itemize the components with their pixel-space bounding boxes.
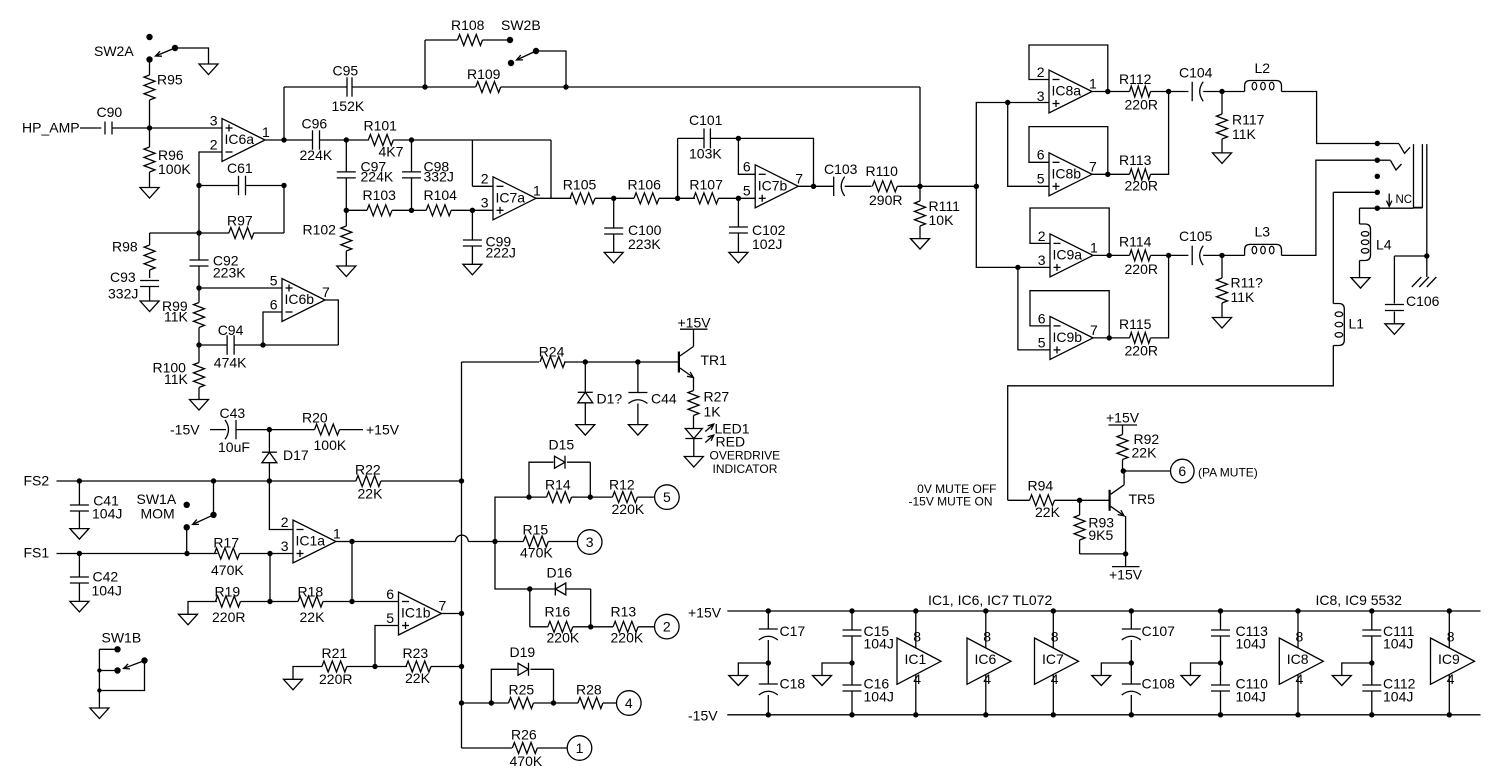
capacitor C113 C110 pair: [1211, 608, 1268, 717]
wire R94 to TR5 base: [1055, 498, 1110, 503]
node FS2 label: [24, 473, 50, 489]
svg-text:3: 3: [210, 112, 218, 128]
svg-text:+15V: +15V: [366, 422, 400, 438]
wire SW1B top contact to rail: [99, 648, 117, 650]
wire C44 to ground: [637, 404, 639, 425]
svg-text:4: 4: [1296, 671, 1304, 687]
svg-text:152K: 152K: [332, 98, 365, 114]
jack contact to L1: [1333, 190, 1380, 195]
wire IC9b feedback loop: [1030, 291, 1109, 338]
wire D1? to ground: [584, 403, 586, 425]
resistor R93: [1074, 500, 1114, 554]
inductor L3: [1245, 224, 1282, 256]
svg-text:C103: C103: [824, 161, 858, 177]
ground hook C113 C110: [1181, 663, 1221, 686]
svg-text:R101: R101: [364, 118, 398, 134]
wire R20 to +15V: [340, 429, 364, 431]
wire R22 to bus: [381, 480, 462, 482]
switch SW1B: [102, 630, 148, 674]
capacitor C95: [332, 63, 365, 115]
wire IC6b output down: [325, 300, 338, 345]
resistor R104: [409, 187, 473, 216]
wire FS2 to R22: [269, 480, 356, 482]
svg-text:1: 1: [533, 183, 541, 199]
jack body frame: [1414, 144, 1423, 208]
svg-text:6: 6: [743, 159, 751, 175]
resistor R112: [1119, 71, 1158, 113]
svg-text:22K: 22K: [1035, 504, 1061, 520]
svg-text:R13: R13: [611, 604, 637, 620]
wire SW1B rail: [97, 649, 101, 708]
ground below R96: [140, 188, 159, 199]
node C94 junction: [196, 342, 201, 347]
terminal circle 5: [655, 485, 680, 510]
wire C101 feedback left leg: [678, 138, 704, 198]
wire R114 to C105 node: [1151, 253, 1189, 258]
svg-text:4: 4: [913, 671, 921, 687]
svg-text:IC6a: IC6a: [225, 131, 255, 147]
svg-text:IC1, IC6, IC7 TL072: IC1, IC6, IC7 TL072: [928, 592, 1052, 608]
svg-text:103K: 103K: [689, 146, 722, 162]
svg-text:290R: 290R: [869, 192, 902, 208]
jack NC contact wire: [1360, 206, 1414, 211]
capacitor C105: [1179, 228, 1213, 265]
ground below C99: [463, 264, 482, 275]
switch SW2A: [94, 34, 178, 63]
svg-text:7: 7: [1089, 159, 1097, 175]
capacitor C107 C108 pair: [1122, 608, 1175, 717]
svg-text:3: 3: [481, 195, 489, 211]
svg-text:6: 6: [386, 586, 394, 602]
svg-text:D16: D16: [547, 565, 573, 581]
resistor R99: [162, 288, 205, 345]
wire R110 to IC8 input node: [897, 184, 979, 189]
svg-text:10K: 10K: [929, 212, 955, 228]
svg-text:R24: R24: [539, 344, 565, 360]
wire SW1B middle contact: [99, 670, 117, 672]
wire R109 to corner: [501, 84, 920, 89]
svg-text:4: 4: [1051, 671, 1059, 687]
wire to D19 junction: [462, 700, 494, 705]
svg-text:R112: R112: [1119, 71, 1152, 87]
wire IC6b pin6 feed: [263, 312, 282, 345]
svg-text:C17: C17: [780, 623, 806, 639]
capacitor C17 C18 pair: [759, 608, 806, 717]
wire C104 to L2: [1203, 89, 1244, 94]
wire C103 to R110: [845, 185, 872, 187]
ground below R102: [337, 266, 356, 277]
svg-text:6: 6: [270, 296, 278, 312]
svg-text:5: 5: [1038, 334, 1046, 350]
ground hook C111 C112: [1332, 663, 1372, 686]
power +15V at R92: [1106, 410, 1140, 426]
wire SW1A pivot to FS2: [213, 481, 215, 515]
svg-text:1: 1: [333, 526, 341, 542]
svg-text:223K: 223K: [628, 236, 661, 252]
svg-text:C90: C90: [97, 104, 123, 120]
svg-text:L2: L2: [1255, 60, 1271, 76]
capacitor C103: [824, 161, 858, 196]
wire IC7a pin2 feed: [472, 140, 493, 186]
wire R21 to R23: [347, 664, 407, 669]
power +15V after R20: [366, 422, 400, 438]
svg-text:SW1B: SW1B: [102, 630, 142, 646]
svg-text:7: 7: [322, 284, 330, 300]
wire IC1b output to bus: [442, 613, 463, 615]
svg-text:R15: R15: [523, 522, 549, 538]
label PA MUTE: [1198, 466, 1258, 480]
label mute states: [908, 482, 996, 509]
power +15V rail label: [688, 605, 722, 621]
resistor R26: [510, 727, 543, 770]
svg-text:104J: 104J: [1236, 689, 1266, 705]
svg-text:11K: 11K: [1232, 126, 1257, 142]
svg-text:4K7: 4K7: [379, 144, 404, 160]
capacitor C61: [196, 160, 286, 195]
ground below C41: [70, 529, 89, 540]
svg-text:D19: D19: [510, 644, 536, 660]
svg-text:R105: R105: [563, 176, 597, 192]
wire L4 lead: [1359, 208, 1361, 224]
capacitor C41: [70, 481, 122, 529]
wire feedback to IC7b output: [738, 138, 813, 186]
svg-text:6: 6: [1037, 147, 1045, 163]
svg-text:R21: R21: [322, 645, 348, 661]
wire SW1B pivot down: [99, 661, 144, 691]
svg-text:IC6: IC6: [975, 651, 997, 667]
LED LED1 RED: [685, 421, 749, 450]
svg-text:SW2A: SW2A: [94, 43, 134, 59]
svg-text:220K: 220K: [611, 630, 644, 646]
svg-text:R103: R103: [363, 187, 397, 203]
svg-text:5: 5: [663, 489, 671, 505]
wire R101 to C98 node: [393, 137, 472, 142]
svg-text:8: 8: [1447, 629, 1455, 645]
wire IC6b pin5 feed: [196, 285, 282, 290]
resistor R11?: [1217, 255, 1264, 317]
capacitor C93: [108, 269, 159, 302]
svg-text:R104: R104: [424, 187, 458, 203]
svg-text:220K: 220K: [547, 630, 580, 646]
svg-text:2: 2: [210, 136, 218, 152]
wire IC1a output down to R18: [351, 542, 353, 602]
wire FS2 to IC1a pin2: [269, 481, 293, 530]
svg-text:C101: C101: [689, 112, 723, 128]
wire D17 to FS2 line: [268, 463, 270, 481]
wire C95 to R109: [352, 84, 476, 89]
svg-text:R17: R17: [213, 535, 239, 551]
wire to D15 junction: [495, 494, 532, 541]
power -15V label: [170, 422, 226, 438]
inductor L2: [1245, 60, 1282, 92]
wire R14 to R12: [577, 494, 613, 499]
chassis ground: [1412, 256, 1437, 287]
svg-text:INDICATOR: INDICATOR: [713, 462, 778, 476]
wire L3 to jack ring contact: [1282, 158, 1381, 256]
wire junction to IC7b pin6: [738, 138, 755, 174]
resistor R113: [1119, 152, 1158, 194]
ground below C93: [140, 301, 159, 312]
svg-text:TR5: TR5: [1129, 491, 1156, 507]
svg-text:104J: 104J: [1236, 636, 1266, 652]
op-amp IC8a: [1037, 64, 1097, 113]
resistor R115: [1119, 316, 1158, 359]
svg-text:FS2: FS2: [24, 473, 50, 489]
transistor TR1: [679, 347, 727, 378]
svg-text:220K: 220K: [612, 501, 645, 517]
svg-text:IC7b: IC7b: [758, 177, 788, 193]
terminal circle 2: [655, 614, 680, 639]
svg-text:4: 4: [983, 671, 991, 687]
ground at R21: [284, 679, 303, 690]
power -15V rail label: [688, 708, 718, 724]
svg-text:9K5: 9K5: [1088, 527, 1113, 543]
wire to IC8b pin5: [1008, 103, 1049, 187]
op-amp IC7 power: [1035, 608, 1079, 717]
wire FS1 down to R19 node: [269, 554, 271, 602]
svg-text:104J: 104J: [864, 689, 894, 705]
wire C96 to R101 node: [320, 137, 370, 142]
svg-text:IC9a: IC9a: [1053, 246, 1083, 262]
switch SW1A: [137, 491, 217, 531]
ground at R19: [179, 614, 198, 625]
svg-text:R115: R115: [1119, 316, 1152, 332]
svg-text:IC7: IC7: [1042, 651, 1064, 667]
svg-text:IC9: IC9: [1438, 651, 1460, 667]
svg-text:IC7a: IC7a: [496, 189, 526, 205]
capacitor C106: [1385, 256, 1440, 324]
wire inverting bus down: [198, 186, 200, 261]
svg-text:C61: C61: [227, 160, 253, 176]
svg-text:4: 4: [1447, 671, 1455, 687]
svg-text:IC1: IC1: [905, 651, 927, 667]
svg-text:IC6b: IC6b: [285, 291, 315, 307]
wire IC6a pin2 bend: [199, 152, 222, 186]
resistor R19: [212, 584, 245, 626]
resistor R106: [628, 176, 662, 204]
svg-text:L4: L4: [1376, 237, 1392, 253]
wire IC9a feedback loop: [1030, 208, 1109, 255]
wire R105 to R106: [595, 196, 634, 201]
jack contact V2: [1377, 160, 1401, 170]
wire R23 to bus: [431, 666, 462, 668]
ground hook C15 C16: [813, 663, 853, 686]
ground below C44: [628, 425, 647, 436]
op-amp IC6b: [270, 272, 330, 321]
diode D15 loop: [529, 437, 590, 498]
svg-text:11K: 11K: [1231, 289, 1256, 305]
op-amp IC8b: [1037, 147, 1097, 196]
svg-text:R98: R98: [112, 239, 138, 255]
resistor R22: [355, 462, 383, 502]
svg-text:22K: 22K: [300, 609, 326, 625]
resistor R105: [563, 176, 597, 204]
wire -15V rail: [727, 714, 1480, 716]
ground below C100: [604, 252, 623, 263]
svg-text:R19: R19: [215, 584, 241, 600]
svg-text:1: 1: [576, 740, 584, 756]
resistor R114: [1119, 234, 1158, 278]
svg-text:470K: 470K: [211, 562, 244, 578]
svg-text:100K: 100K: [314, 437, 347, 453]
svg-text:C44: C44: [651, 391, 677, 407]
wire R17 to IC1a pin3: [240, 551, 294, 556]
terminal circle 6: [1171, 459, 1195, 483]
svg-text:2: 2: [1038, 228, 1046, 244]
label OVERDRIVE INDICATOR: [710, 449, 781, 477]
wire bus R24 to R22: [459, 362, 464, 484]
jack unused contact: [1375, 174, 1380, 179]
capacitor C43: [218, 405, 250, 455]
resistor R27: [688, 389, 729, 420]
svg-text:(PA MUTE): (PA MUTE): [1198, 466, 1258, 480]
resistor R15: [495, 522, 577, 561]
wire R24 to TR1 base: [564, 359, 679, 364]
resistor R103: [344, 187, 412, 216]
svg-text:224K: 224K: [300, 147, 333, 163]
inductor L1: [1333, 304, 1364, 346]
switch SW2B: [501, 17, 541, 66]
wire to PA MUTE terminal: [1124, 470, 1170, 472]
op-amp IC1 power: [897, 608, 941, 717]
wire ground to R21: [293, 667, 322, 680]
svg-text:104J: 104J: [92, 506, 122, 522]
wire IC8a feedback loop: [1029, 45, 1108, 92]
svg-text:7: 7: [795, 171, 803, 187]
ground below SW1B: [90, 708, 109, 719]
wire SW2A to ground: [175, 48, 209, 64]
ground below C102: [729, 252, 748, 263]
svg-text:220R: 220R: [1125, 97, 1158, 113]
svg-text:11K: 11K: [164, 309, 189, 325]
resistor R28: [576, 682, 603, 709]
wire R112 to C104 node: [1151, 89, 1189, 94]
wire IC8b feedback loop: [1029, 127, 1108, 175]
svg-text:470K: 470K: [520, 545, 553, 561]
wire R26 to pin 1: [537, 747, 567, 749]
power +15V at TR1: [678, 315, 712, 331]
capacitor C100: [604, 198, 661, 252]
label 5532 group: [1316, 592, 1403, 608]
svg-text:1K: 1K: [704, 404, 722, 420]
resistor R21: [319, 645, 352, 687]
svg-text:5: 5: [743, 183, 751, 199]
svg-text:MOM: MOM: [141, 506, 175, 522]
capacitor C102: [729, 198, 786, 252]
wire SW2B to main line: [536, 51, 566, 87]
wire R108 branch up: [425, 40, 458, 87]
wire R113 up to C104 node: [1151, 92, 1169, 175]
resistor R110: [866, 163, 903, 208]
wire R16 to R13: [588, 624, 613, 629]
svg-text:2: 2: [1037, 64, 1045, 80]
svg-text:C108: C108: [1142, 676, 1176, 692]
resistor R102: [303, 210, 352, 266]
op-amp IC7b: [743, 159, 803, 208]
svg-text:332J: 332J: [424, 169, 454, 185]
wire R104 to IC7a pin3: [470, 208, 493, 213]
svg-text:220R: 220R: [1125, 343, 1158, 359]
svg-text:R28: R28: [576, 682, 602, 698]
wire IC8a output: [1092, 89, 1130, 94]
svg-text:+15V: +15V: [1106, 410, 1140, 426]
svg-text:C104: C104: [1179, 65, 1213, 81]
svg-text:FS1: FS1: [24, 545, 50, 561]
wire IC7a output: [536, 197, 571, 199]
wire R28 to pin 4: [603, 702, 617, 704]
svg-text:C96: C96: [302, 116, 328, 132]
wire R25 to R28: [551, 700, 578, 705]
wire bus R22 to IC1b out: [459, 481, 464, 616]
resistor R13: [611, 604, 644, 646]
ground below L4: [1351, 278, 1370, 289]
wire IC8b output: [1092, 172, 1130, 177]
op-amp IC1a: [281, 514, 341, 563]
svg-text:R108: R108: [451, 17, 485, 33]
wire R27 to LED1: [693, 416, 695, 429]
op-amp IC9b: [1038, 310, 1098, 359]
svg-text:224K: 224K: [361, 169, 394, 185]
op-amp IC8 power: [1279, 608, 1323, 717]
capacitor C92: [190, 253, 247, 289]
inductor L4: [1360, 224, 1392, 261]
svg-text:22K: 22K: [358, 486, 384, 502]
ground below LED1: [684, 457, 703, 468]
svg-text:22K: 22K: [405, 670, 431, 686]
resistor R12: [609, 477, 645, 518]
wire D16 right leg: [590, 589, 592, 627]
resistor R101: [364, 118, 404, 160]
wire IC9a output: [1093, 253, 1130, 258]
svg-text:+15V: +15V: [688, 605, 722, 621]
svg-text:2: 2: [481, 171, 489, 187]
wire L1 to mute line: [1008, 346, 1334, 501]
svg-text:R97: R97: [227, 213, 253, 229]
resistor R111: [915, 186, 961, 238]
svg-text:474K: 474K: [214, 354, 247, 370]
capacitor C99: [463, 210, 516, 264]
svg-text:R25: R25: [509, 682, 535, 698]
wire C43 to R20: [236, 427, 315, 432]
capacitor C111 C112 pair: [1362, 608, 1415, 717]
jack contact V1: [1377, 144, 1410, 154]
wire output down to R97: [283, 186, 285, 234]
svg-text:5: 5: [386, 610, 394, 626]
node HP_AMP input label: [22, 120, 80, 136]
svg-text:104J: 104J: [864, 636, 894, 652]
wire R108 to SW2B: [483, 39, 511, 41]
svg-text:8: 8: [983, 629, 991, 645]
svg-text:R113: R113: [1119, 152, 1152, 168]
wire R19 to R18: [241, 599, 299, 604]
svg-text:5: 5: [270, 272, 278, 288]
svg-text:TR1: TR1: [701, 352, 728, 368]
svg-text:3: 3: [1037, 88, 1045, 104]
resistor R95: [144, 60, 183, 129]
svg-text:HP_AMP: HP_AMP: [22, 120, 80, 136]
svg-text:IC8b: IC8b: [1052, 165, 1082, 181]
svg-text:3: 3: [281, 538, 289, 554]
resistor R98: [112, 233, 199, 278]
wire R24 branch from vertical: [462, 361, 540, 363]
wire IC6a output node: [265, 137, 313, 142]
svg-text:OVERDRIVE: OVERDRIVE: [710, 449, 781, 463]
resistor R20: [302, 410, 347, 454]
capacitor C97: [337, 140, 394, 210]
wire down to D16 junction: [495, 542, 533, 592]
svg-text:L1: L1: [1349, 316, 1365, 332]
ground at SW2A: [199, 64, 218, 75]
